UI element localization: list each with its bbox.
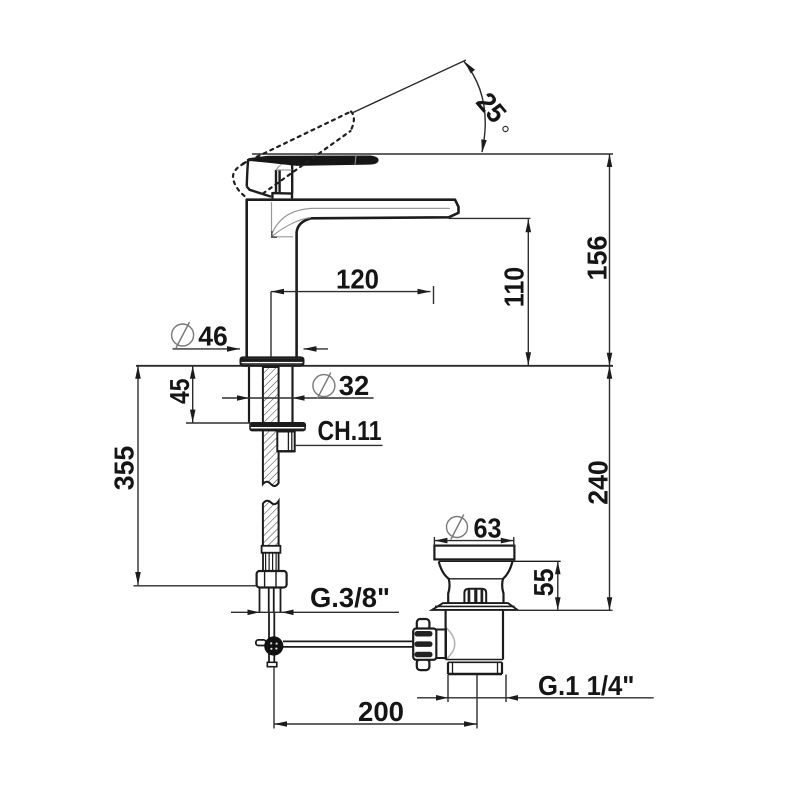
svg-text:46: 46 bbox=[198, 321, 228, 352]
horseshoe washer under counter bbox=[250, 423, 305, 431]
rod left stub bbox=[256, 640, 266, 646]
locking nut CH.11 bbox=[277, 432, 294, 452]
arc arrow bottom bbox=[481, 139, 487, 153]
dim 156 bbox=[609, 154, 611, 366]
hose braid crimp ribs bbox=[263, 553, 279, 571]
pop-up rod vertical bbox=[269, 612, 274, 663]
dim 200 bbox=[274, 667, 477, 729]
top reference line at handle level bbox=[252, 153, 613, 155]
svg-text:355: 355 bbox=[109, 446, 140, 491]
dim O32 bbox=[222, 397, 374, 399]
dim 55 bbox=[505, 561, 613, 610]
ball joint bbox=[264, 636, 283, 655]
base flange on counter (O46) bbox=[241, 357, 304, 365]
svg-text:45: 45 bbox=[164, 379, 195, 405]
svg-text:120: 120 bbox=[336, 264, 379, 295]
supply hex adapter nut bbox=[257, 571, 287, 588]
drain flare bbox=[439, 562, 513, 604]
svg-text:240: 240 bbox=[583, 460, 614, 505]
dim 355 bbox=[134, 366, 257, 586]
dim O63 bbox=[434, 537, 513, 546]
handle base bbox=[247, 159, 293, 193]
25 degree diagonal line bbox=[352, 60, 466, 113]
dashed raised handle outline bbox=[233, 112, 354, 197]
pop-up plug knob bbox=[464, 589, 486, 603]
dim 240 bbox=[609, 366, 611, 610]
hose lower hatched section bbox=[263, 501, 279, 546]
lever bar seam bbox=[355, 156, 356, 165]
faint arc inside drain body bbox=[447, 628, 455, 659]
svg-text:200: 200 bbox=[358, 696, 404, 727]
drain knurled nut bbox=[413, 619, 436, 670]
25 degree arc bbox=[464, 62, 485, 153]
svg-text:110: 110 bbox=[499, 267, 530, 308]
rod end cap bbox=[267, 662, 277, 666]
dim 45 bbox=[186, 366, 251, 423]
svg-text:156: 156 bbox=[582, 236, 613, 281]
spout inner light detail lines bbox=[272, 202, 451, 237]
svg-text:CH.11: CH.11 bbox=[318, 415, 382, 446]
shank below counter (O32) bbox=[249, 367, 293, 423]
drain body below flange bbox=[446, 610, 503, 674]
flexible hose upper hatched section bbox=[263, 367, 279, 486]
handle lever (dark bar) bbox=[248, 156, 378, 166]
svg-text:32: 32 bbox=[339, 370, 370, 401]
counter top line bbox=[136, 365, 613, 367]
faucet spout and body outline bbox=[247, 200, 459, 358]
horizontal pop-up rod bbox=[283, 641, 413, 647]
hose end collar bbox=[262, 546, 281, 553]
svg-text:55: 55 bbox=[528, 568, 559, 596]
drain top rim bbox=[434, 546, 560, 562]
handle base bottom edges bbox=[247, 187, 292, 199]
G3/8 thread end bbox=[260, 588, 281, 613]
arc arrow top bbox=[465, 62, 476, 74]
nut to drain connector bbox=[436, 630, 446, 659]
drain sink flange plate bbox=[432, 603, 518, 610]
dim 110 bbox=[449, 218, 531, 365]
svg-text:G.3/8": G.3/8" bbox=[310, 582, 390, 613]
svg-text:G.1 1/4": G.1 1/4" bbox=[538, 670, 635, 701]
svg-text:63: 63 bbox=[474, 513, 502, 544]
dim O46 bbox=[173, 348, 329, 350]
dim 120 bbox=[271, 286, 434, 357]
